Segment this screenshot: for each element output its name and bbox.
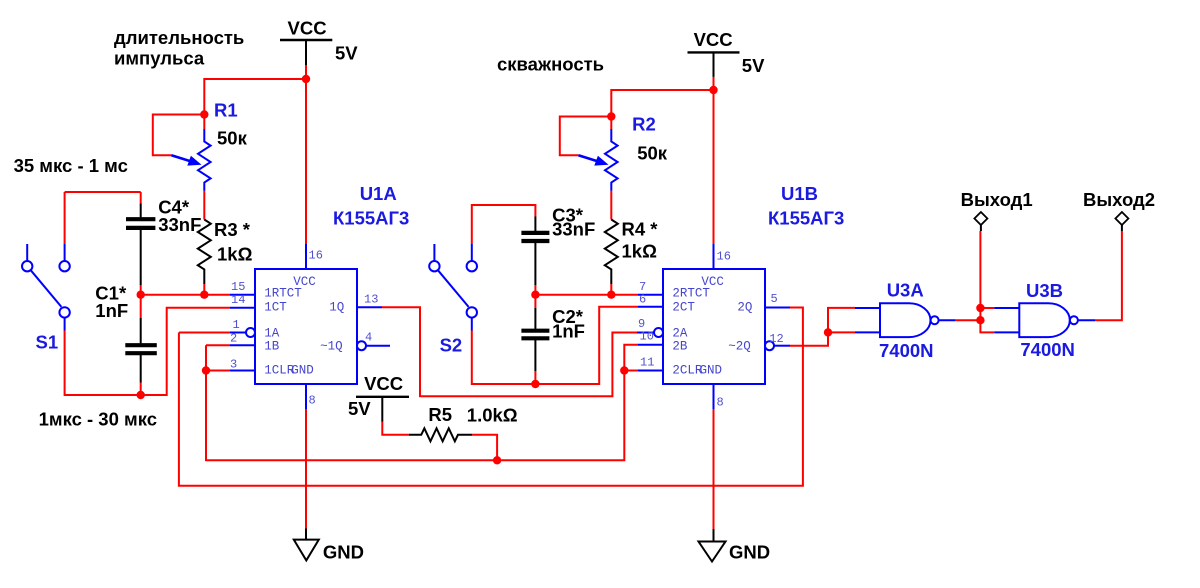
svg-text:R4 *: R4 * xyxy=(622,219,659,240)
svg-text:16: 16 xyxy=(717,250,731,264)
svg-text:~2Q: ~2Q xyxy=(728,339,751,353)
svg-text:5V: 5V xyxy=(742,55,765,76)
svg-text:50к: 50к xyxy=(217,128,248,149)
svg-text:1CT: 1CT xyxy=(264,300,287,314)
svg-text:5: 5 xyxy=(771,292,778,306)
svg-text:8: 8 xyxy=(717,396,724,410)
svg-text:К155АГ3: К155АГ3 xyxy=(768,208,844,229)
svg-text:R3 *: R3 * xyxy=(214,219,251,240)
svg-text:3: 3 xyxy=(230,358,237,372)
svg-text:33nF: 33nF xyxy=(552,219,595,240)
svg-text:1kΩ: 1kΩ xyxy=(622,241,658,262)
svg-text:2CLR: 2CLR xyxy=(672,363,703,377)
svg-text:1мкс - 30 мкс: 1мкс - 30 мкс xyxy=(39,409,157,430)
svg-text:1kΩ: 1kΩ xyxy=(217,244,253,265)
svg-text:VCC: VCC xyxy=(364,373,403,394)
svg-text:Выход1: Выход1 xyxy=(961,189,1033,210)
svg-text:1nF: 1nF xyxy=(95,300,128,321)
svg-text:16: 16 xyxy=(309,249,323,263)
svg-text:VCC: VCC xyxy=(288,18,327,39)
svg-text:~1Q: ~1Q xyxy=(320,339,343,353)
svg-text:R1: R1 xyxy=(214,100,238,121)
svg-text:К155АГ3: К155АГ3 xyxy=(333,208,409,229)
svg-text:10: 10 xyxy=(640,330,654,344)
svg-text:14: 14 xyxy=(231,293,245,307)
svg-text:U1A: U1A xyxy=(360,183,397,204)
svg-text:U3B: U3B xyxy=(1026,280,1063,301)
svg-text:2B: 2B xyxy=(672,339,688,353)
svg-text:7400N: 7400N xyxy=(1020,339,1075,360)
svg-text:11: 11 xyxy=(640,356,654,370)
svg-text:1RTCT: 1RTCT xyxy=(264,287,302,301)
svg-text:2RTCT: 2RTCT xyxy=(672,287,710,301)
svg-text:импульса: импульса xyxy=(114,48,205,69)
svg-text:2Q: 2Q xyxy=(737,300,752,314)
svg-text:15: 15 xyxy=(231,280,245,294)
svg-text:GND: GND xyxy=(323,542,364,563)
svg-text:5V: 5V xyxy=(335,43,358,64)
svg-text:U1B: U1B xyxy=(781,183,818,204)
svg-text:2: 2 xyxy=(230,332,237,346)
svg-text:1nF: 1nF xyxy=(552,321,585,342)
svg-text:R2: R2 xyxy=(632,114,656,135)
svg-text:35 мкс - 1 мс: 35 мкс - 1 мс xyxy=(14,155,128,176)
svg-text:GND: GND xyxy=(700,363,723,377)
svg-text:длительность: длительность xyxy=(114,27,244,48)
svg-text:1CLR: 1CLR xyxy=(264,363,295,377)
svg-text:R5: R5 xyxy=(428,404,452,425)
svg-text:1.0kΩ: 1.0kΩ xyxy=(467,405,518,426)
svg-text:4: 4 xyxy=(365,331,372,345)
svg-text:1: 1 xyxy=(233,318,240,332)
svg-text:GND: GND xyxy=(291,363,314,377)
svg-text:1B: 1B xyxy=(264,339,280,353)
svg-text:12: 12 xyxy=(769,332,783,346)
svg-text:U3A: U3A xyxy=(887,279,924,300)
svg-text:Выход2: Выход2 xyxy=(1083,189,1155,210)
svg-text:50к: 50к xyxy=(637,143,668,164)
svg-text:6: 6 xyxy=(639,293,646,307)
svg-text:S1: S1 xyxy=(36,332,59,353)
svg-text:2CT: 2CT xyxy=(672,300,695,314)
svg-text:13: 13 xyxy=(364,293,378,307)
svg-text:S2: S2 xyxy=(440,335,463,356)
svg-text:5V: 5V xyxy=(348,398,371,419)
svg-text:7400N: 7400N xyxy=(879,340,934,361)
svg-text:скважность: скважность xyxy=(497,54,604,75)
svg-text:1Q: 1Q xyxy=(329,300,344,314)
svg-text:33nF: 33nF xyxy=(158,214,201,235)
svg-text:GND: GND xyxy=(729,542,770,563)
svg-text:8: 8 xyxy=(309,394,316,408)
svg-text:VCC: VCC xyxy=(694,29,733,50)
